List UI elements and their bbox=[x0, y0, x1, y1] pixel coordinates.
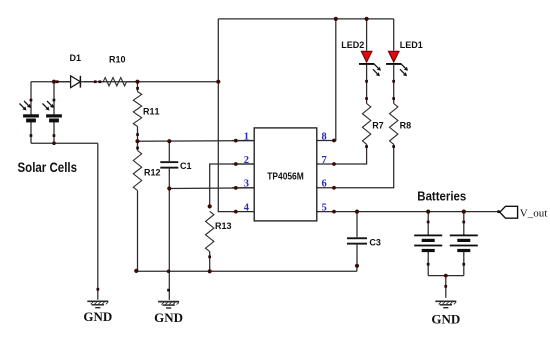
ground GND3 symbol bbox=[435, 301, 456, 307]
label TP4056M bbox=[267, 172, 304, 183]
svg-text:D1: D1 bbox=[70, 53, 82, 63]
connector V_out tag bbox=[500, 206, 518, 218]
pin number 8 bbox=[322, 131, 327, 142]
node R13 rail junction bbox=[208, 269, 212, 273]
node R13 bottom terminal bbox=[208, 256, 211, 259]
label R10 bbox=[109, 55, 126, 65]
node R10 left terminal bbox=[99, 80, 102, 83]
resistor R12 bbox=[133, 151, 141, 191]
wire battery B1 bottom lead bbox=[427, 252, 429, 276]
wire R7 to pin 7 bbox=[317, 144, 367, 164]
node R11 top terminal bbox=[136, 87, 139, 90]
label Batteries bbox=[417, 189, 466, 204]
wire battery join bbox=[428, 275, 464, 277]
node R11 bottom terminal bbox=[136, 133, 139, 136]
svg-text:Solar Cells: Solar Cells bbox=[18, 159, 78, 175]
label C3 bbox=[369, 237, 381, 247]
node battery mid junction bbox=[444, 274, 448, 278]
node R10-R11 junction bbox=[135, 80, 139, 84]
svg-text:5: 5 bbox=[322, 202, 327, 213]
svg-text:R7: R7 bbox=[372, 121, 384, 131]
wire C1 node to GND2 bbox=[168, 189, 170, 300]
node solar cell1 top terminal bbox=[30, 99, 33, 102]
pin number 5 bbox=[322, 202, 327, 213]
node LED1 cathode terminal bbox=[392, 80, 395, 83]
node GND2 terminal bbox=[167, 289, 170, 292]
label V_out bbox=[520, 207, 548, 219]
U1 pin 4 stub bbox=[232, 211, 254, 213]
resistor R13 bbox=[206, 211, 214, 251]
node R13 top junction bbox=[208, 204, 212, 208]
wire C3 bottom jog bbox=[356, 266, 358, 272]
wire battery B2 top lead bbox=[463, 212, 465, 235]
node GND2 rail junction bbox=[167, 270, 171, 274]
node C3 bottom junction bbox=[355, 264, 359, 268]
svg-text:6: 6 bbox=[322, 179, 327, 190]
wire pin 1 net bbox=[138, 140, 255, 143]
node B1 top junction bbox=[426, 210, 430, 214]
pin number 1 bbox=[244, 131, 249, 142]
node pin2 dot bbox=[234, 162, 238, 166]
node V_out wire tip bbox=[497, 210, 500, 213]
resistor R7 bbox=[362, 104, 370, 145]
svg-text:R11: R11 bbox=[143, 106, 160, 116]
svg-text:7: 7 bbox=[322, 155, 327, 166]
label Solar Cells bbox=[18, 159, 78, 175]
label D1 bbox=[70, 53, 82, 63]
ground GND1 symbol bbox=[87, 301, 108, 307]
node D1 anode terminal bbox=[56, 80, 59, 83]
node B2 bottom terminal bbox=[462, 263, 465, 266]
node vertical tap at top rail bbox=[216, 80, 220, 84]
solar cell X2 bbox=[43, 101, 62, 122]
wire C3 top lead bbox=[356, 212, 358, 238]
node pin4 dot bbox=[234, 210, 238, 214]
node pin3 dot bbox=[234, 186, 238, 190]
svg-text:V_out: V_out bbox=[520, 207, 548, 219]
node C3 top junction bbox=[355, 210, 359, 214]
label GND2 bbox=[154, 310, 183, 325]
svg-text:R8: R8 bbox=[400, 121, 412, 131]
resistor R8 bbox=[390, 104, 398, 145]
wire left tall vertical to pin 4 bbox=[218, 19, 236, 212]
wire R11 to node A bbox=[137, 127, 139, 142]
wire pin 3 net bbox=[169, 187, 254, 190]
svg-text:2: 2 bbox=[244, 155, 249, 166]
pin number 6 bbox=[322, 179, 327, 190]
node B2 top terminal bbox=[462, 221, 465, 224]
node top rail LED2 junction bbox=[365, 17, 369, 21]
node solar cell2 top terminal bbox=[53, 99, 56, 102]
node pin7 dot bbox=[332, 162, 336, 166]
node R12 top terminal bbox=[136, 147, 139, 150]
svg-text:LED2: LED2 bbox=[341, 40, 364, 50]
wire solar cell1 top lead bbox=[30, 82, 32, 115]
wire to GND3 bbox=[445, 276, 447, 298]
node GND3 terminal bbox=[444, 285, 447, 288]
solar cell X1 bbox=[20, 101, 39, 122]
node R7 bottom terminal bbox=[365, 145, 368, 148]
label R13 bbox=[215, 221, 232, 231]
wire LED1 branch bbox=[393, 19, 395, 51]
node solar cell2 bottom terminal bbox=[53, 134, 56, 137]
svg-text:R13: R13 bbox=[215, 221, 232, 231]
node solar cell2 top bbox=[52, 80, 56, 84]
node GND1 terminal bbox=[97, 288, 100, 291]
label C1 bbox=[180, 161, 192, 171]
resistor R11 bbox=[133, 92, 141, 127]
svg-text:C3: C3 bbox=[369, 237, 381, 247]
label LED2 bbox=[341, 40, 364, 50]
wire R12 bottom lead bbox=[137, 191, 139, 272]
svg-text:GND: GND bbox=[83, 309, 112, 324]
wire pin 8 vertical bbox=[317, 19, 336, 141]
wire solar top rail bbox=[31, 81, 218, 83]
wire R8 to pin 6 bbox=[317, 144, 394, 188]
svg-text:3: 3 bbox=[244, 179, 249, 190]
svg-text:1: 1 bbox=[244, 131, 249, 142]
svg-text:C1: C1 bbox=[180, 161, 192, 171]
svg-text:4: 4 bbox=[244, 202, 250, 213]
svg-text:LED1: LED1 bbox=[400, 40, 423, 50]
svg-text:R12: R12 bbox=[144, 167, 161, 177]
wire pin 5 net bbox=[317, 211, 500, 213]
capacitor C1 bbox=[160, 161, 178, 168]
node solar cell1 bottom terminal bbox=[30, 134, 33, 137]
pin number 7 bbox=[322, 155, 327, 166]
node A R11-R12-pin1 bbox=[135, 139, 139, 143]
pin number 3 bbox=[244, 179, 249, 190]
node pin8 dot bbox=[332, 139, 336, 143]
node R8 top terminal bbox=[392, 97, 395, 100]
wire R12 top lead bbox=[137, 141, 139, 150]
ground GND2 symbol bbox=[158, 302, 179, 308]
wire top rail bbox=[218, 18, 393, 20]
svg-text:GND: GND bbox=[431, 312, 460, 327]
node LED2 cathode terminal bbox=[365, 80, 368, 83]
op-amp U1 TP4056M body bbox=[254, 128, 317, 221]
wire R11 branch bbox=[137, 82, 139, 92]
wire bottom rail bbox=[136, 270, 357, 272]
LED LED1 bbox=[386, 51, 408, 76]
node C1 top junction bbox=[167, 139, 171, 143]
node B1 bottom terminal bbox=[427, 263, 430, 266]
label R8 bbox=[400, 121, 412, 131]
battery B2 bbox=[450, 235, 478, 253]
pin number 4 bbox=[244, 202, 250, 213]
label R11 bbox=[143, 106, 160, 116]
node solar rail cell2 junction bbox=[52, 141, 56, 145]
wire pin 2 net bbox=[210, 164, 255, 206]
wire LED2 branch bbox=[366, 19, 368, 51]
node pin5 dot bbox=[332, 210, 336, 214]
capacitor C3 bbox=[347, 237, 367, 244]
node R7 top terminal bbox=[365, 97, 368, 100]
wire C1 top lead bbox=[168, 141, 170, 161]
label LED1 bbox=[400, 40, 423, 50]
label GND1 bbox=[83, 309, 112, 324]
wire battery B2 bottom lead bbox=[463, 252, 465, 276]
label R12 bbox=[144, 167, 161, 177]
wire R13 bottom lead bbox=[209, 252, 211, 272]
LED LED2 bbox=[359, 51, 381, 76]
label GND3 bbox=[431, 312, 460, 327]
wire solar cell1 bottom lead bbox=[30, 122, 32, 144]
wire C3 bottom lead bbox=[356, 245, 358, 266]
node R12 rail junction bbox=[134, 269, 138, 273]
node D1 cathode terminal bbox=[94, 80, 97, 83]
svg-text:GND: GND bbox=[154, 310, 183, 325]
resistor R10 bbox=[99, 78, 137, 86]
wire LED2 to R7 bbox=[366, 65, 368, 104]
node R8 bottom terminal bbox=[392, 145, 395, 148]
svg-text:8: 8 bbox=[322, 131, 327, 142]
label R7 bbox=[372, 121, 384, 131]
wire to GND1 bbox=[97, 143, 99, 299]
wire C1 bottom lead bbox=[168, 169, 170, 189]
U1 pin 1 stub bbox=[232, 140, 254, 142]
wire solar bottom rail bbox=[31, 142, 98, 144]
battery B1 bbox=[414, 235, 442, 253]
wire LED1 to R8 bbox=[393, 65, 395, 104]
node pin1 dot bbox=[234, 139, 238, 143]
wire solar cell2 bottom lead bbox=[53, 122, 55, 144]
node pin6 dot bbox=[332, 186, 336, 190]
svg-text:TP4056M: TP4056M bbox=[267, 172, 304, 183]
node B2 top junction bbox=[462, 210, 466, 214]
U1 pin 3 stub bbox=[232, 187, 254, 189]
node B1 top terminal bbox=[427, 221, 430, 224]
node top rail pin8 junction bbox=[334, 17, 338, 21]
svg-text:Batteries: Batteries bbox=[417, 189, 466, 204]
wire battery B1 top lead bbox=[427, 212, 429, 235]
node C1 bottom junction bbox=[167, 186, 171, 190]
diode D1 bbox=[57, 76, 95, 88]
pin number 2 bbox=[244, 155, 249, 166]
svg-text:R10: R10 bbox=[109, 55, 126, 65]
U1 pin 2 stub bbox=[232, 163, 254, 165]
wire solar cell2 top lead bbox=[53, 82, 55, 115]
